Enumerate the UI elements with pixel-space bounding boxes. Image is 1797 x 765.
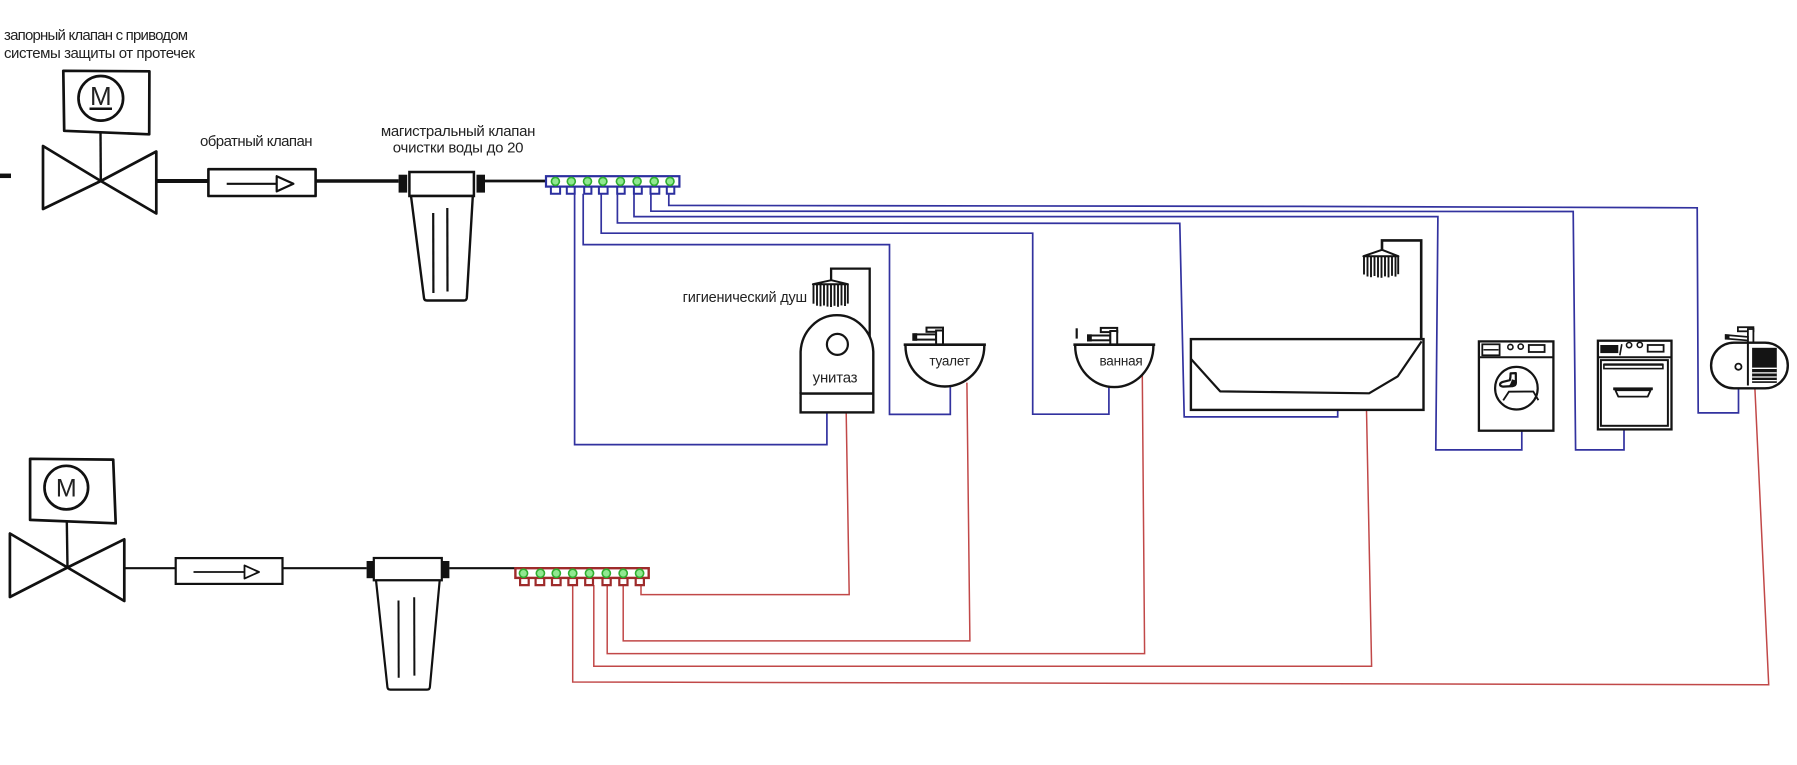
dishwasher (1598, 341, 1672, 430)
rim (904, 343, 986, 346)
svg-text:магистральный клапан: магистральный клапан (381, 123, 535, 140)
hot pipe to bathtub (594, 410, 1372, 666)
svg-text:запорный клапан с приводом: запорный клапан с приводом (4, 27, 188, 44)
svg-text:очистки воды до 20: очистки воды до 20 (393, 140, 523, 157)
cold manifold outlet stubs (551, 187, 674, 194)
hygienic shower head (813, 280, 848, 284)
cold manifold valve knobs (green circles) (551, 177, 674, 185)
washing machine (1479, 341, 1554, 430)
rim (1073, 343, 1155, 346)
label: запорный клапан с приводом / системы защиты от протечек (4, 27, 195, 62)
motor box M (cold) (63, 71, 149, 135)
hot manifold outlet stubs (520, 578, 644, 585)
svg-text:обратный клапан: обратный клапан (200, 133, 312, 150)
check valve (hot) (176, 558, 283, 584)
faucet (1076, 328, 1078, 338)
cold pipe to toilet (575, 194, 827, 445)
toilet bowl dome (801, 315, 874, 393)
bathtub (1191, 339, 1424, 410)
cold pipes (575, 194, 1739, 450)
svg-text:ванная: ванная (1099, 354, 1142, 369)
hot pipes (573, 375, 1769, 684)
boiler (1711, 327, 1788, 388)
boiler body (1711, 343, 1788, 389)
pipe valve to check valve (cold) (156, 179, 208, 183)
check valve (cold) (208, 169, 315, 196)
bath sink (ванная) (1073, 328, 1155, 387)
WC sink (туалет) (904, 328, 986, 387)
svg-text:унитаз: унитаз (813, 370, 858, 387)
toilet group (801, 269, 874, 413)
hot pipe to boiler (573, 382, 1769, 685)
main filter (cold) (399, 172, 485, 301)
pipe check valve to filter (cold) (316, 179, 399, 182)
cold manifold body (546, 176, 679, 186)
sock icon (1500, 373, 1516, 387)
hot manifold body (515, 568, 648, 578)
cold pipe to dishwasher (651, 194, 1624, 450)
pipe check valve to filter (hot) (283, 567, 367, 569)
faucet (915, 334, 936, 339)
hot pipe to WC sink (623, 383, 970, 641)
svg-text:M: M (90, 81, 112, 111)
svg-text:гигиенический душ: гигиенический душ (683, 290, 807, 306)
toilet flush pipe rect (831, 269, 870, 345)
hot pipe to bath sink (607, 375, 1144, 653)
pipe valve to check valve (hot) (124, 567, 175, 569)
pipe filter to cold manifold (485, 180, 546, 183)
pipe filter to hot manifold (449, 567, 515, 569)
bowl (1075, 346, 1153, 387)
hot manifold valve knobs (green circles) (519, 569, 643, 577)
boiler heater block (1752, 348, 1777, 383)
cold pipe to bath sink (601, 194, 1109, 414)
svg-text:системы защиты от протечек: системы защиты от протечек (4, 45, 195, 62)
bath shower pipe (1382, 240, 1421, 339)
bath shower head (1363, 250, 1398, 256)
cold pipe to bathtub (617, 194, 1337, 417)
cold pipe to boiler (669, 194, 1739, 413)
bowl (906, 346, 985, 387)
toilet base (801, 394, 874, 413)
motorized shutoff valve (hot) (10, 534, 124, 602)
cold pipe to washing machine (634, 194, 1522, 450)
cold pipe to WC sink (583, 194, 950, 415)
toilet tank circle (827, 334, 848, 355)
svg-text:M: M (56, 475, 77, 503)
cold supply stub line (0, 174, 11, 179)
valve stem (cold) (99, 131, 102, 181)
motorized shutoff valve (cold) : bowtie (43, 146, 156, 214)
svg-text:туалет: туалет (929, 354, 969, 369)
boiler faucet (1738, 327, 1754, 331)
motor box M (hot) (30, 459, 116, 524)
main filter (hot) (367, 558, 450, 690)
hot pipe to toilet (641, 413, 849, 595)
